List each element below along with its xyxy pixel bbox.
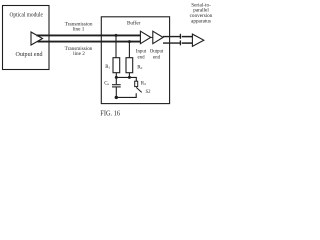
wire output line upper	[163, 36, 180, 38]
buffer box	[101, 17, 169, 104]
node tap 1 (junction dot on line 1)	[115, 34, 118, 37]
buffer U1 triangle	[140, 31, 150, 44]
optical module box	[3, 6, 50, 70]
wire transmission line 2	[38, 41, 141, 43]
wire tap from line 1 down to R1	[115, 35, 117, 58]
svg-text:line 1: line 1	[73, 27, 85, 33]
capacitor Ca bottom lead	[115, 87, 117, 97]
connector tick upper	[179, 34, 181, 39]
wire transmission line 1	[37, 34, 141, 36]
switch S2 blade	[136, 87, 142, 92]
svg-text:end: end	[153, 55, 161, 60]
svg-text:Input: Input	[136, 50, 147, 55]
wire R2 bottom	[128, 73, 130, 78]
svg-text:Rd: Rd	[141, 81, 146, 86]
wire joining junctions and over to Rd branch	[116, 77, 136, 81]
buffer U2 triangle	[153, 31, 163, 44]
svg-text:Buffer: Buffer	[127, 19, 141, 26]
node junction C (bottom rail)	[115, 96, 118, 99]
op-amp driver (output triangle of optical module)	[31, 32, 43, 45]
svg-text:apparatus: apparatus	[191, 18, 211, 24]
svg-text:Output: Output	[150, 50, 164, 55]
svg-text:FIG. 16: FIG. 16	[100, 109, 120, 118]
wire R1 bottom	[115, 73, 117, 78]
svg-text:S2: S2	[146, 90, 152, 95]
arrow to serial-to-parallel apparatus	[192, 34, 203, 46]
svg-text:line 2: line 2	[73, 51, 85, 57]
wire bottom rail to switch contact	[116, 93, 136, 97]
svg-text:R1: R1	[105, 65, 110, 70]
resistor R2	[126, 58, 133, 73]
capacitor Ca	[112, 84, 121, 86]
node junction B (below R2)	[128, 76, 131, 79]
svg-text:R2: R2	[137, 64, 142, 70]
wire output line upper continued	[182, 36, 193, 38]
svg-text:Output end: Output end	[16, 52, 43, 58]
node junction A (below R1)	[115, 76, 118, 79]
resistor R1	[113, 58, 120, 73]
svg-text:Optical module: Optical module	[10, 12, 44, 18]
wire tap from line 2 down to R2	[128, 42, 130, 58]
connector tick lower	[179, 40, 181, 45]
node tap 2 (junction dot on line 2)	[128, 40, 131, 43]
svg-text:end: end	[137, 55, 145, 60]
resistor Rd	[135, 81, 138, 86]
svg-text:Ca: Ca	[104, 81, 109, 86]
wire output line lower	[163, 42, 180, 44]
capacitor Ca top lead	[115, 77, 117, 84]
wire output line lower continued	[182, 42, 193, 44]
wire between buffers	[151, 36, 153, 38]
